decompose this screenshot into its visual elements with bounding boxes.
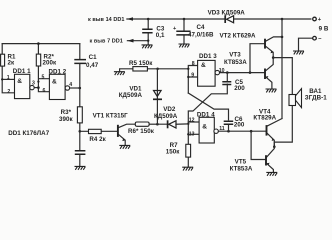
node rail drop [281, 18, 284, 21]
ground C2 [75, 166, 86, 169]
wire pin1 DD1.1 [2, 78, 14, 80]
svg-text:КД509А: КД509А [154, 113, 178, 120]
node pin9 [187, 76, 189, 78]
svg-text:C4: C4 [197, 24, 206, 31]
node VT5 branch [250, 130, 253, 133]
node pin5 branch [37, 81, 39, 83]
svg-text:200к: 200к [43, 60, 57, 67]
svg-text:DD1 3: DD1 3 [199, 53, 217, 60]
capacitor C2 [75, 151, 86, 155]
wire R5 left to ground [120, 69, 133, 72]
wire R3 chain [79, 88, 81, 166]
node R4 branch [79, 130, 82, 133]
node pin8 [187, 68, 189, 70]
transistor VT4 [267, 125, 275, 141]
wire minus to ground [299, 38, 313, 51]
svg-text:R5 150к: R5 150к [129, 60, 153, 67]
svg-text:DD1 2: DD1 2 [49, 68, 67, 75]
wire VT1 emitter [119, 135, 126, 146]
svg-text:200: 200 [234, 122, 245, 129]
node C3 bottom [147, 40, 149, 42]
node VT2 collector [281, 36, 284, 39]
wire DD1.1 output to node [34, 87, 38, 89]
svg-text:8: 8 [192, 61, 195, 67]
svg-text:к выв 14 DD1: к выв 14 DD1 [88, 17, 125, 23]
wire left top rail [2, 43, 80, 45]
svg-text:0,1: 0,1 [156, 32, 165, 39]
resistor R5 [133, 67, 148, 71]
node output A [272, 56, 275, 59]
svg-text:5: 5 [42, 75, 45, 81]
wire C6 stem [228, 125, 230, 132]
ground R7 [182, 167, 193, 170]
svg-text:4: 4 [69, 82, 72, 88]
svg-text:11: 11 [219, 126, 225, 132]
svg-text:VT3: VT3 [229, 52, 241, 59]
capacitor C1 [74, 60, 86, 64]
wire C1 drop [79, 44, 81, 88]
arrow to pin14 [127, 17, 133, 21]
wire DD1.3 out row [220, 72, 266, 74]
svg-text:13: 13 [189, 131, 195, 137]
svg-text:3: 3 [32, 80, 35, 86]
svg-text:&: & [201, 62, 206, 69]
wire main rail drop V1 [281, 19, 283, 119]
wire VT2 collector [266, 37, 282, 41]
wire pin7 row [127, 40, 148, 42]
speaker BA1 [289, 89, 302, 108]
ground C4 [179, 44, 190, 47]
node pin13 [187, 133, 189, 135]
svg-text:2к: 2к [8, 59, 15, 66]
ground VT5 [266, 172, 277, 175]
svg-text:КТ853А: КТ853А [224, 59, 247, 66]
wire R7 to ground [187, 157, 189, 167]
svg-text:150к: 150к [166, 149, 180, 156]
svg-text:КТ829А: КТ829А [253, 115, 276, 122]
terminal plus [313, 17, 317, 21]
ground VT1 [119, 145, 130, 148]
transistor VT5 [266, 155, 270, 165]
resistor R6 [135, 122, 149, 126]
svg-text:R4 2к: R4 2к [89, 136, 106, 143]
wire output A to speaker [273, 58, 292, 95]
diode VD3 [225, 15, 233, 23]
wire VT1 collector [119, 124, 136, 127]
svg-text:10: 10 [219, 68, 225, 74]
capacitor C3 [142, 29, 152, 33]
ground VT3 [266, 89, 277, 92]
capacitor C6 [224, 121, 234, 124]
node VT2 branch [249, 71, 252, 74]
resistor R2 [36, 54, 40, 66]
wire VT4 collector [267, 119, 282, 126]
gate DD1.4 [199, 117, 218, 143]
svg-text:+: + [318, 17, 322, 23]
transistor VT3 [265, 69, 268, 80]
capacitor C4 [176, 31, 190, 35]
wire C5 bottom cross A [188, 84, 227, 144]
wire VT5 emitter [267, 164, 274, 173]
node out3 [37, 86, 40, 89]
svg-text:200: 200 [234, 85, 245, 92]
svg-text:КД509А: КД509А [119, 92, 143, 99]
svg-text:VT1 КТ315Г: VT1 КТ315Г [93, 112, 129, 119]
svg-text:VT5: VT5 [235, 158, 247, 165]
node C5 top [226, 71, 229, 74]
wire C4 stem [183, 19, 185, 44]
wire VT2 base branch [250, 44, 264, 73]
wire cross B to C6 [188, 93, 228, 120]
diode VD1 [153, 91, 162, 100]
node C4 top [183, 18, 186, 21]
svg-text:DD1 4: DD1 4 [197, 112, 215, 119]
node R2 top [37, 42, 40, 45]
node VD2 join [187, 123, 189, 125]
svg-text:0,47: 0,47 [86, 62, 99, 69]
terminal minus [313, 36, 317, 40]
resistor R1 [1, 54, 5, 66]
wire VT3 emitter [266, 77, 272, 89]
svg-text:C1: C1 [89, 54, 98, 61]
capacitor C5 [222, 82, 231, 85]
ground C3 [142, 45, 153, 48]
gate DD1.2 [49, 74, 69, 99]
gate DD1.1 [15, 74, 35, 98]
wire C3 stem [147, 19, 149, 45]
wire VD1 stem [156, 69, 158, 124]
wire DD1.4 out row [218, 130, 265, 132]
svg-text:6: 6 [43, 88, 46, 94]
svg-text:12: 12 [189, 118, 195, 124]
wire VT3 collector [266, 58, 274, 71]
node pin4 [79, 87, 82, 90]
svg-text:2: 2 [7, 89, 10, 95]
node R6 VD1 VD2 [156, 123, 159, 126]
wire R6 to node [149, 123, 157, 125]
svg-text:ЗГДВ-1: ЗГДВ-1 [305, 94, 327, 101]
svg-text:9 В: 9 В [319, 26, 329, 33]
wire VT5 collector [267, 147, 275, 157]
node pin1 [1, 78, 3, 80]
wire R4 row to VT1 base [80, 130, 118, 132]
svg-text:&: & [17, 78, 22, 85]
wire pin12 [188, 121, 199, 123]
resistor R3 [77, 107, 82, 123]
wire VT5 base branch [251, 131, 265, 159]
svg-text:1: 1 [7, 75, 10, 81]
wire DD1.3 input vertical [188, 66, 197, 94]
wire R2 stem top [37, 44, 39, 55]
svg-text:390к: 390к [59, 116, 73, 123]
wire top rail [127, 18, 311, 20]
transistor VT1 [118, 125, 125, 141]
svg-text:9: 9 [191, 73, 194, 79]
wire left vertical R1 chain [2, 44, 14, 93]
wire DD1.2 output to node [70, 87, 80, 89]
diode VD2 [168, 120, 176, 128]
svg-text:VD3 КД509А: VD3 КД509А [208, 9, 246, 16]
svg-text:DD1 К176ЛА7: DD1 К176ЛА7 [8, 130, 50, 137]
ground minus [293, 51, 304, 54]
svg-text:VT2 КТ629А: VT2 КТ629А [220, 33, 257, 40]
node output B [273, 145, 276, 148]
wire pin13 [188, 133, 199, 135]
svg-text:47,0/16В: 47,0/16В [188, 32, 214, 39]
transistor VT2 [265, 39, 273, 54]
node R5 VD1 [156, 68, 159, 71]
wire C5 stem [226, 73, 228, 82]
svg-text:R6* 150к: R6* 150к [128, 128, 155, 135]
svg-text:−: − [318, 36, 322, 42]
wire VD2 row [157, 123, 188, 125]
node C6 bottom [227, 130, 230, 133]
wire R5 right to pin8 [147, 68, 188, 70]
resistor R7 [186, 144, 191, 157]
wire speaker bottom [274, 106, 292, 147]
svg-text:&: & [202, 123, 207, 130]
wire R2 bottom to gate inputs [38, 66, 49, 92]
svg-text:к выв 7 DD1: к выв 7 DD1 [90, 38, 123, 44]
svg-text:R3*: R3* [61, 109, 72, 116]
node C3 top [147, 18, 150, 21]
resistor R4 [89, 129, 102, 133]
arrow to pin7 [127, 39, 133, 43]
wire VT2 emitter [266, 46, 274, 57]
svg-text:&: & [52, 78, 57, 85]
svg-text:КТ853А: КТ853А [230, 166, 253, 173]
ground R5 [114, 72, 125, 75]
gate DD1.3 [198, 60, 220, 86]
svg-text:DD1 1: DD1 1 [13, 68, 31, 75]
wire VT4 emitter [267, 134, 274, 147]
